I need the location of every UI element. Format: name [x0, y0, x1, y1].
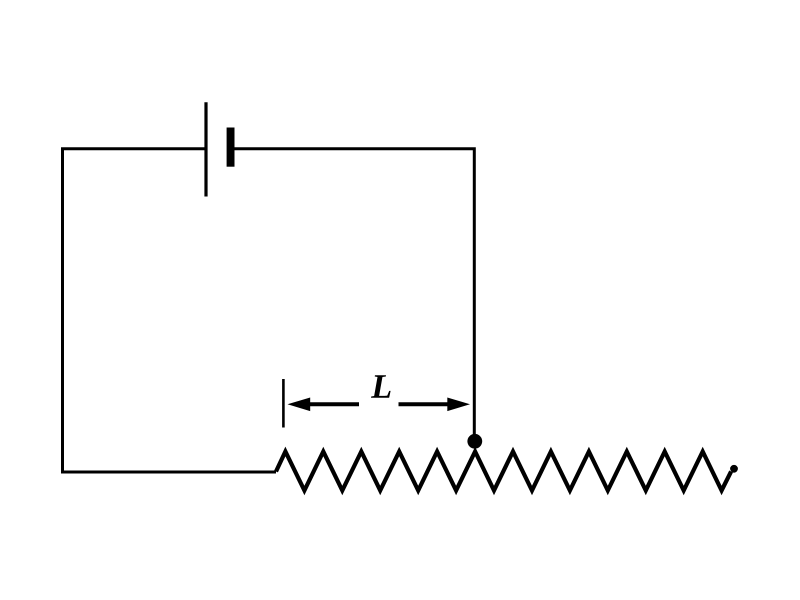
wire: top-right segment from battery to right side, down to tap node: [235, 149, 475, 440]
dimension arrow right (points to wire): [399, 398, 471, 412]
dimension tick (left boundary of L): [282, 379, 285, 428]
wire: top-left segment from battery to left side, down left side, along bottom: [63, 149, 277, 472]
label L: [371, 375, 391, 397]
battery B1 long plate (+): [204, 102, 207, 196]
node A: tap junction dot on resistor: [467, 434, 482, 449]
resistor R1 (slide-wire zigzag): [276, 452, 731, 491]
battery B1 short thick plate (-): [227, 128, 235, 167]
terminal dot at right end of resistor: [730, 465, 738, 473]
dimension arrow left (points to tick): [288, 398, 360, 412]
